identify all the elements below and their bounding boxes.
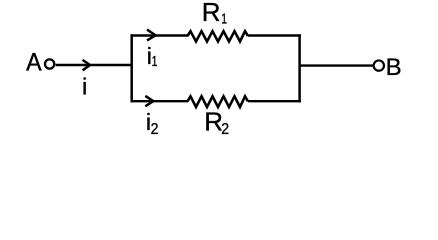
- wire A to junction: [56, 64, 132, 66]
- label R1: [202, 0, 227, 27]
- wire bottom branch right: [248, 100, 301, 102]
- right junction vertical wire: [298, 34, 301, 102]
- resistor R2: [188, 96, 249, 107]
- label R2: [204, 106, 229, 138]
- svg-text:2: 2: [151, 120, 159, 137]
- svg-text:R: R: [202, 0, 221, 27]
- svg-text:A: A: [26, 49, 42, 77]
- wire top branch right: [248, 34, 301, 36]
- wire top branch left: [131, 34, 189, 36]
- terminal A (open circle): [45, 59, 54, 68]
- svg-text:1: 1: [152, 52, 158, 69]
- current arrow i: [83, 60, 90, 70]
- svg-text:1: 1: [221, 10, 227, 27]
- svg-text:B: B: [386, 54, 402, 81]
- svg-text:2: 2: [221, 120, 229, 137]
- wire junction to B: [300, 64, 374, 66]
- svg-text:i: i: [82, 74, 87, 100]
- current arrow i1: [147, 30, 156, 41]
- label i2: [146, 109, 159, 138]
- label i1: [147, 43, 158, 69]
- terminal B (open circle): [374, 60, 384, 70]
- current arrow i2: [145, 96, 153, 106]
- svg-text:R: R: [204, 106, 223, 136]
- wire bottom branch left: [131, 100, 189, 102]
- left junction vertical wire: [130, 34, 133, 102]
- resistor R1: [188, 31, 249, 41]
